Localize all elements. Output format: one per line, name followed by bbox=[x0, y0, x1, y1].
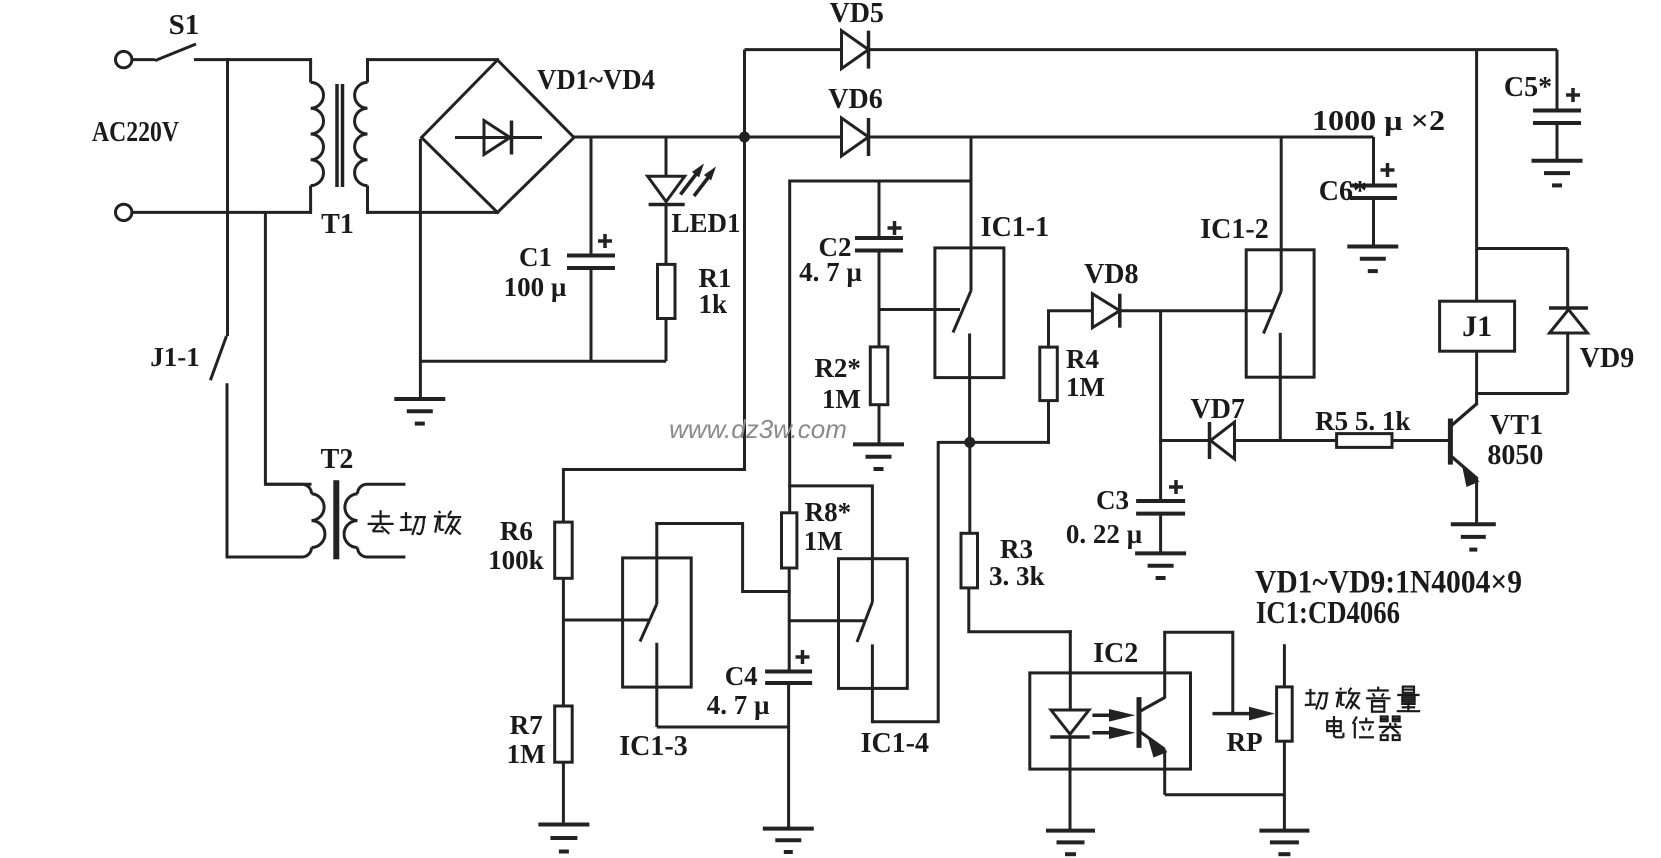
wire bbox=[132, 58, 155, 61]
wire: T1 secondary bottom to bridge bbox=[366, 211, 499, 214]
analog switch IC1-3 box bbox=[623, 558, 692, 687]
wire: IC1-3 input riser bbox=[655, 522, 658, 604]
ground: C3 bbox=[1135, 551, 1186, 555]
svg-text:www.dz3w.com: www.dz3w.com bbox=[669, 414, 847, 444]
optocoupler IC2 box bbox=[1030, 673, 1191, 769]
wire: IC1-4 control input bbox=[789, 619, 864, 622]
analog switch IC1-1 box bbox=[935, 248, 1004, 378]
wire: RP wiper arrow bbox=[1213, 712, 1254, 716]
svg-text:R2*: R2* bbox=[814, 353, 861, 383]
wire: VD8 cathode to IC1-2 control bbox=[1120, 309, 1272, 312]
svg-text:R6: R6 bbox=[500, 516, 533, 546]
wire: to R6 top bbox=[563, 468, 746, 471]
wire: VD9 top lead bbox=[1566, 249, 1569, 309]
wire: R5 to VT1 base bbox=[1392, 439, 1449, 442]
wire: C6 to ground bbox=[1372, 198, 1375, 247]
svg-text:C1: C1 bbox=[519, 242, 552, 272]
svg-text:IC1-1: IC1-1 bbox=[981, 212, 1049, 243]
wire: IC1-1 control input bbox=[879, 308, 960, 311]
svg-text:1M: 1M bbox=[822, 384, 861, 414]
wire: R4 bottom lead bbox=[1047, 401, 1050, 444]
diode VD8 bbox=[1092, 294, 1119, 328]
svg-text:VD6: VD6 bbox=[828, 84, 882, 115]
wire: R1 to ground rail bbox=[665, 319, 668, 362]
polarity + of C2 bbox=[888, 226, 902, 230]
terminal: AC line top bbox=[116, 51, 132, 67]
wire: riser to VD5 rail bbox=[743, 50, 746, 137]
polarity + of C4 bbox=[796, 655, 810, 659]
wire: IC1-1 output bbox=[968, 334, 971, 443]
svg-text:T1: T1 bbox=[321, 209, 354, 240]
svg-text:C6*: C6* bbox=[1319, 176, 1367, 207]
node B junction dot bbox=[964, 437, 975, 448]
wire: VD5 rail left bbox=[745, 48, 843, 51]
capacitor C2 bbox=[855, 236, 903, 240]
bridge internal diode bbox=[455, 136, 542, 139]
wire: R2 to ground bbox=[878, 405, 881, 445]
analog switch IC1-2 box bbox=[1246, 250, 1314, 377]
svg-text:J1-1: J1-1 bbox=[150, 342, 200, 372]
wire: IC1-3 control input bbox=[563, 619, 650, 622]
wire: IC2 LED cathode to ground bbox=[1069, 736, 1072, 831]
svg-text:100k: 100k bbox=[488, 545, 544, 575]
polarity + of C3 bbox=[1169, 485, 1183, 489]
wire: VD9 bottom lead bbox=[1566, 333, 1569, 394]
wire: R6 to R7 bbox=[562, 578, 565, 706]
wire: IC1-2 input from rail bbox=[1280, 137, 1283, 291]
resistor R6 bbox=[555, 522, 573, 578]
switch S1 blade bbox=[155, 44, 196, 61]
wire: AC top line to T1 bbox=[194, 58, 311, 61]
transformer T2 primary bbox=[265, 484, 311, 494]
relay coil J1 box bbox=[1440, 301, 1515, 351]
wire: left vertical to R8 bbox=[788, 180, 791, 515]
svg-text:LED1: LED1 bbox=[671, 208, 740, 238]
ground: IC2 bbox=[1046, 829, 1095, 833]
svg-text:J1: J1 bbox=[1462, 310, 1492, 343]
svg-text:4. 7 µ: 4. 7 µ bbox=[799, 257, 862, 287]
node A junction dot bbox=[739, 132, 750, 143]
switch IC1-3 blade bbox=[640, 604, 657, 642]
wire: bridge negative to ground rail bbox=[419, 139, 422, 399]
wire: phototransistor emitter down bbox=[1163, 749, 1166, 794]
transistor VT1 bbox=[1448, 419, 1453, 465]
svg-text:3. 3k: 3. 3k bbox=[989, 561, 1045, 591]
capacitor C3 bbox=[1136, 499, 1185, 503]
svg-text:4. 7 µ: 4. 7 µ bbox=[707, 690, 770, 720]
svg-text:VD1~VD4: VD1~VD4 bbox=[537, 64, 655, 96]
wire: C5 drop bbox=[1556, 50, 1559, 111]
wire: phototransistor collector up bbox=[1163, 632, 1166, 698]
terminal: AC line bottom bbox=[116, 204, 132, 220]
IC2 internal LED bbox=[1051, 710, 1089, 734]
wire: C6 drop bbox=[1372, 137, 1375, 186]
svg-text:VD8: VD8 bbox=[1084, 259, 1138, 290]
transformer T1 core bbox=[335, 84, 339, 187]
label to-amplifier (Chinese) bbox=[368, 510, 462, 535]
switch IC1-1 blade bbox=[953, 291, 971, 333]
wire: IC1-4 return bottom bbox=[872, 720, 939, 723]
ground: C4 bbox=[763, 827, 814, 831]
polarity + of C6 bbox=[1381, 168, 1395, 172]
transformer T1 primary bbox=[309, 58, 312, 82]
wire: VD7 anode to R5 bbox=[1235, 439, 1338, 442]
wire: IC1-3 output to C4 ground leg bbox=[657, 726, 790, 729]
capacitor C6 bbox=[1350, 184, 1397, 188]
wire: C5 to ground bbox=[1556, 123, 1559, 161]
wire: IC1-3 top bent link to R8 node bbox=[655, 524, 790, 592]
IC2 light arrow 1 bbox=[1092, 714, 1124, 718]
wire: IC1-2 output to VD7 rail bbox=[1279, 333, 1282, 441]
wire: J1 bottom to VT1 collector bbox=[1475, 351, 1478, 404]
ground: bridge bbox=[394, 397, 445, 401]
resistor R8 bbox=[782, 513, 797, 568]
svg-text:T2: T2 bbox=[321, 444, 354, 475]
label volume pot (Chinese) line2 bbox=[1327, 716, 1401, 740]
wire: VT1 emitter to ground bbox=[1475, 478, 1478, 524]
svg-text:0. 22 µ: 0. 22 µ bbox=[1066, 519, 1143, 549]
svg-text:R3: R3 bbox=[1000, 534, 1033, 564]
svg-text:IC1:CD4066: IC1:CD4066 bbox=[1256, 594, 1400, 630]
resistor R5 bbox=[1337, 434, 1392, 448]
svg-text:100 µ: 100 µ bbox=[504, 272, 567, 302]
capacitor C4 bbox=[765, 670, 812, 674]
wire: bridge positive DC rail bbox=[574, 136, 842, 139]
wire: R8 feed tee to IC1-4 bbox=[788, 486, 872, 602]
wire: LED1 to R1 bbox=[665, 203, 668, 265]
wire: IC1-4 return vertical bbox=[937, 441, 940, 722]
diode VD6 bbox=[842, 118, 869, 156]
wire: RP bottom to ground bbox=[1283, 741, 1286, 830]
resistor R1 bbox=[658, 264, 676, 318]
diode VD5 bbox=[842, 31, 869, 69]
wire: AC bottom to T2 primary bbox=[265, 211, 311, 484]
wire: emitter to RP bottom bbox=[1165, 793, 1285, 796]
wire: C2 loop top bbox=[790, 180, 971, 183]
wire: node B to R4 bbox=[970, 441, 1049, 444]
wire: relay top to VD9 bbox=[1477, 247, 1568, 250]
LED LED1 bbox=[648, 176, 685, 201]
svg-text:1M: 1M bbox=[804, 526, 843, 556]
switch J1-1 blade bbox=[210, 336, 226, 380]
wire: C2 drop bbox=[878, 181, 881, 238]
transformer T2 secondary bbox=[358, 484, 406, 494]
svg-text:IC1-2: IC1-2 bbox=[1200, 214, 1268, 245]
svg-text:1k: 1k bbox=[699, 289, 728, 319]
svg-text:C4: C4 bbox=[725, 661, 758, 691]
capacitor C1 bbox=[567, 254, 615, 258]
svg-text:S1: S1 bbox=[169, 9, 200, 41]
switch IC1-2 blade bbox=[1264, 291, 1282, 333]
wire: C1 to ground rail bbox=[590, 268, 593, 361]
svg-text:R5 5. 1k: R5 5. 1k bbox=[1315, 406, 1410, 436]
resistor R2 bbox=[870, 347, 888, 405]
wire: C2 to control node bbox=[878, 251, 881, 312]
wire: VD9 bottom to collector node bbox=[1475, 392, 1568, 395]
ground: RP bbox=[1259, 829, 1309, 833]
wire: node B down to R3 bbox=[968, 442, 971, 534]
LED1 emission arrows bbox=[681, 173, 698, 195]
wire: collector route to RP wiper bbox=[1163, 632, 1233, 713]
switch IC1-4 blade bbox=[857, 602, 872, 642]
wire: ground rail bbox=[420, 360, 666, 363]
bridge rectifier VD1~VD4 diamond bbox=[422, 60, 575, 212]
ground: R2 bbox=[853, 442, 904, 446]
svg-text:C5*: C5* bbox=[1504, 72, 1552, 103]
IC2 light arrow 2 bbox=[1092, 731, 1124, 735]
analog switch IC1-4 box bbox=[839, 559, 908, 689]
svg-text:VD5: VD5 bbox=[829, 0, 883, 29]
resistor R7 bbox=[555, 706, 573, 762]
resistor R4 bbox=[1040, 347, 1058, 401]
wire: VD7 cathode lead bbox=[1159, 439, 1210, 442]
wire: C1 drop bbox=[590, 137, 593, 256]
svg-text:IC2: IC2 bbox=[1093, 638, 1138, 669]
wire: R6 top lead bbox=[562, 468, 565, 522]
wire: feed into IC2 LED bbox=[1069, 630, 1072, 711]
wire: VD6 to C6 rail bbox=[869, 136, 1374, 139]
label volume pot (Chinese) line1 bbox=[1305, 687, 1420, 712]
svg-text:VD9: VD9 bbox=[1580, 343, 1634, 374]
svg-text:1M: 1M bbox=[507, 739, 546, 769]
svg-text:C3: C3 bbox=[1096, 485, 1129, 515]
ground: R7 bbox=[538, 823, 589, 827]
wire: VD5 rail right bbox=[869, 48, 1558, 51]
wire: J1-1 upper bbox=[226, 58, 229, 336]
diode VD7 bbox=[1211, 422, 1235, 459]
svg-text:1000 µ ×2: 1000 µ ×2 bbox=[1312, 106, 1445, 137]
svg-text:IC1-3: IC1-3 bbox=[619, 731, 687, 762]
wire: C2 node down to R2 bbox=[878, 308, 881, 348]
svg-text:VD7: VD7 bbox=[1190, 394, 1244, 425]
wire: VD5 rail drop to relay bbox=[1475, 50, 1478, 302]
ground: C6 bbox=[1347, 245, 1398, 249]
wire: R8 bottom to C4 bbox=[788, 568, 791, 672]
svg-text:1M: 1M bbox=[1066, 372, 1105, 402]
transformer T1 secondary bbox=[366, 58, 369, 82]
wire: R7 to ground bbox=[562, 762, 565, 824]
ground: VT1 bbox=[1451, 522, 1496, 526]
polarity + of C1 bbox=[598, 239, 612, 243]
svg-text:8050: 8050 bbox=[1487, 440, 1543, 471]
wire: node B left stub bbox=[938, 441, 970, 444]
diode VD9 (points up) bbox=[1549, 306, 1588, 310]
wire: IC1-3 output down bbox=[655, 643, 658, 727]
wire: VD8 node down to C3 bbox=[1159, 311, 1162, 501]
wire: IC1-1 input from rail bbox=[970, 137, 973, 291]
svg-text:VT1: VT1 bbox=[1490, 410, 1543, 441]
svg-text:R8*: R8* bbox=[805, 497, 852, 527]
wire: RP top lead bbox=[1283, 644, 1286, 687]
wire: R4 top to VD8 anode bbox=[1047, 311, 1050, 349]
svg-text:RP: RP bbox=[1227, 727, 1263, 757]
svg-text:R4: R4 bbox=[1066, 344, 1099, 374]
potentiometer RP body bbox=[1277, 687, 1293, 741]
svg-text:R7: R7 bbox=[510, 710, 543, 740]
transformer T2 core bbox=[333, 480, 339, 559]
wire: IC1-4 output down bbox=[871, 644, 874, 723]
svg-text:AC220V: AC220V bbox=[92, 117, 179, 148]
wire: LED1 drop bbox=[665, 137, 668, 177]
resistor R3 bbox=[961, 533, 978, 588]
svg-text:IC1-4: IC1-4 bbox=[861, 728, 929, 759]
ground: C5 bbox=[1532, 159, 1583, 163]
wire: R3 bottom lead bbox=[969, 588, 1072, 632]
wire: C4 to ground bbox=[787, 683, 790, 829]
wire: C3 to ground bbox=[1159, 514, 1162, 554]
capacitor C5 bbox=[1533, 109, 1581, 113]
wire: J1-1 lower bbox=[226, 383, 229, 558]
polarity + of C5 bbox=[1566, 93, 1580, 97]
IC2 phototransistor bbox=[1137, 697, 1142, 748]
wire: T1 secondary top to bridge bbox=[366, 58, 499, 61]
wire: long vertical node A down to R6 branch bbox=[743, 137, 746, 470]
wire: AC bottom line to T1 bbox=[132, 211, 310, 214]
wire: VD8 anode lead bbox=[1047, 309, 1093, 312]
